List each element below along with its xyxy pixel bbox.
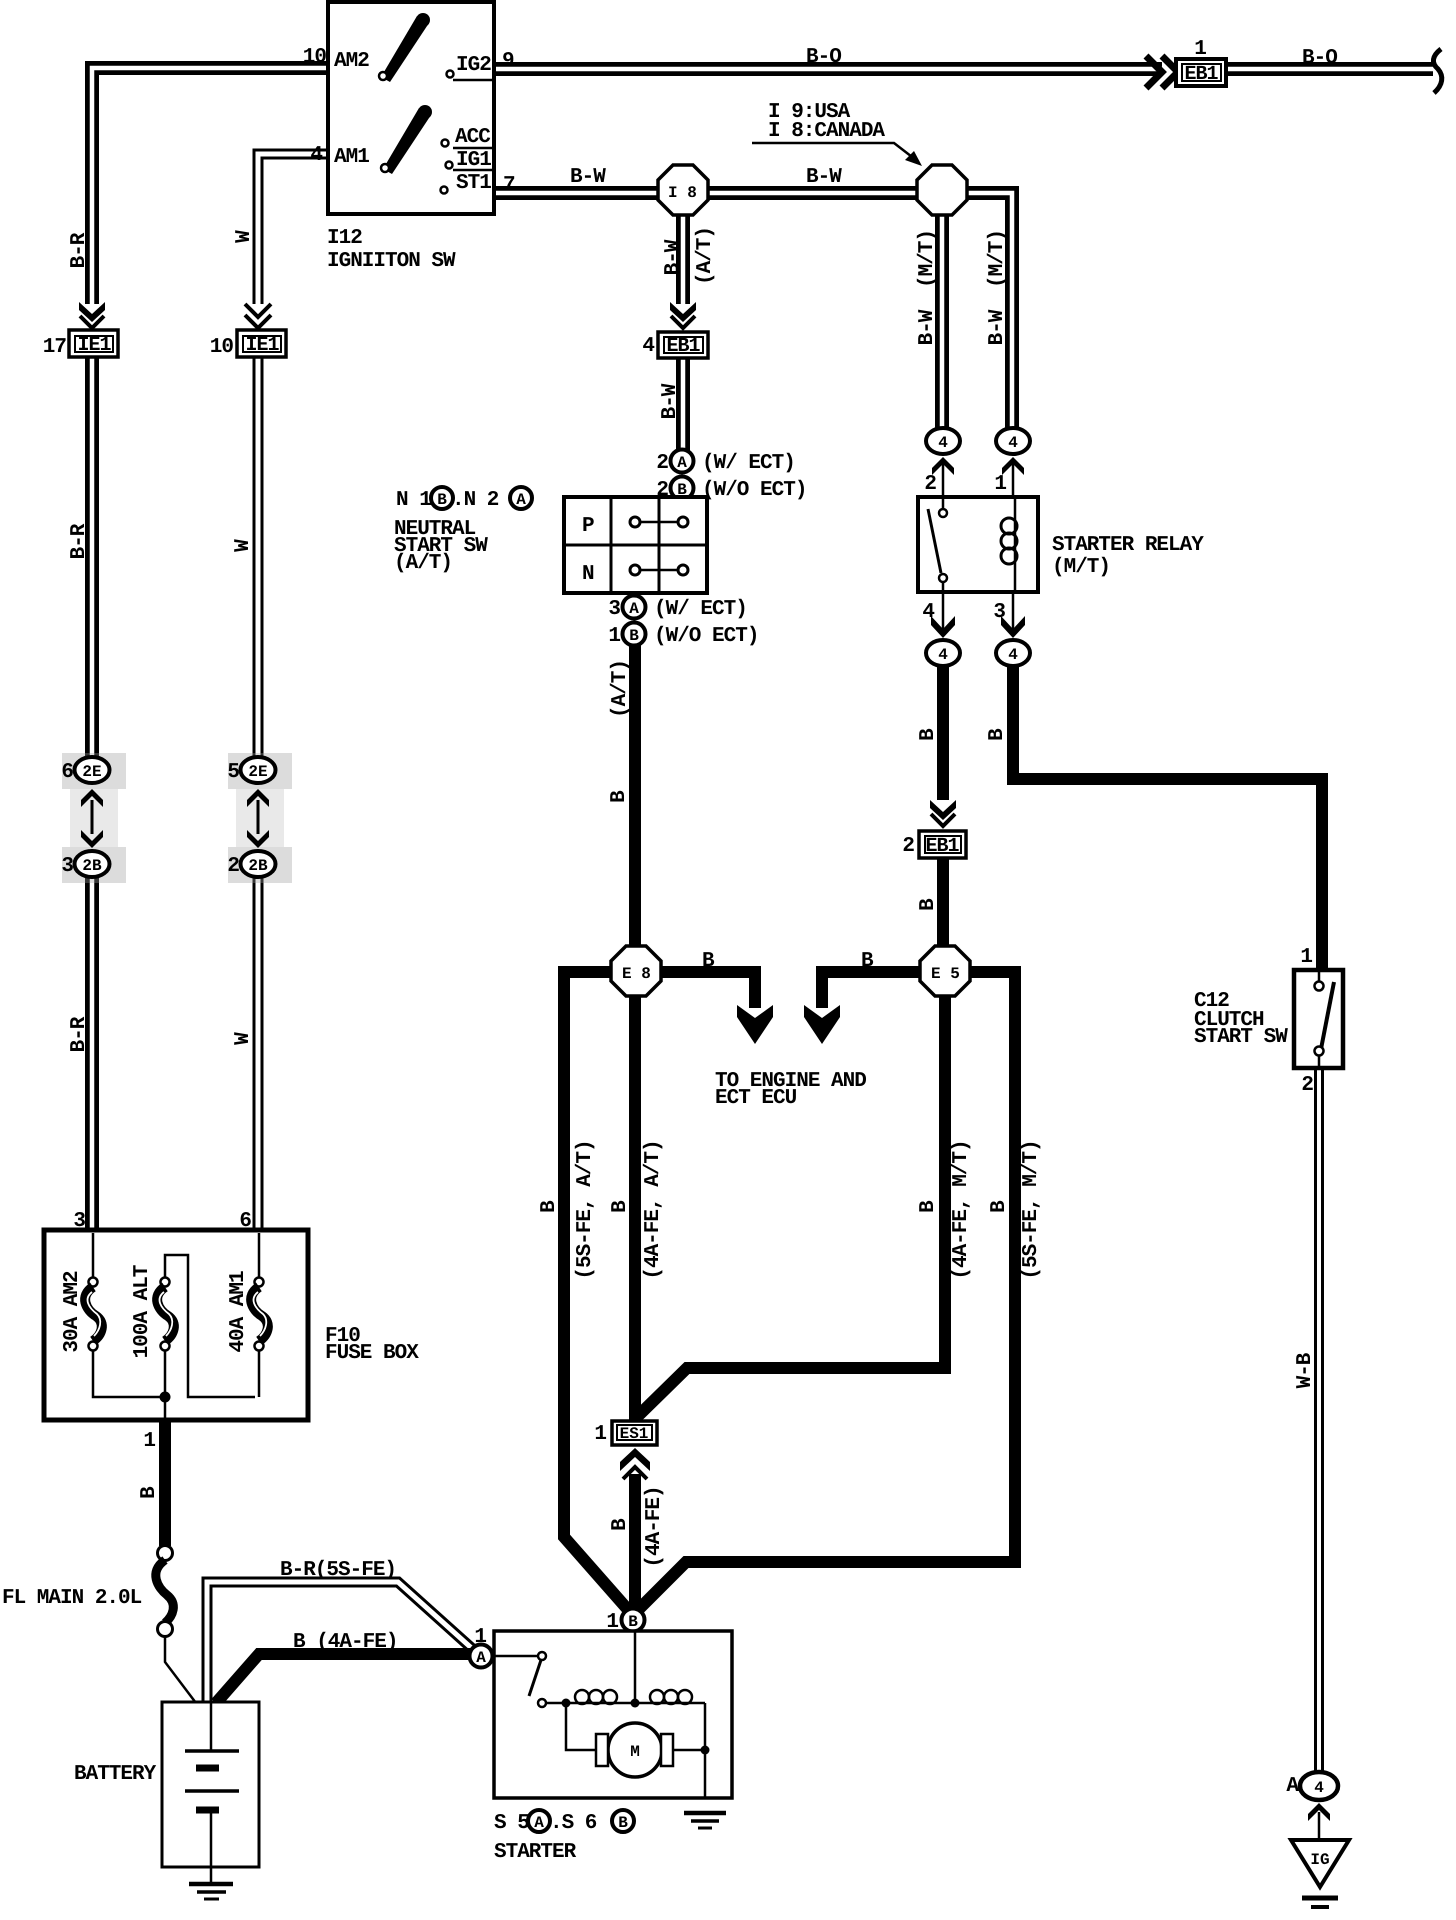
fuse 40A AM1 — [258, 1233, 261, 1397]
svg-text:4: 4 — [1314, 1779, 1324, 1797]
wire B (4A-FE, A/T): E8 down to ES1 — [629, 990, 641, 1421]
connector IE1 pin10 — [237, 330, 286, 357]
neutral start switch box — [564, 497, 707, 593]
connector 2B (W wire) — [241, 851, 276, 877]
leader line with arrow to octagon — [752, 143, 916, 160]
arrow up into 4-oval pin2 — [932, 457, 954, 475]
ignition switch I12 box — [328, 2, 494, 214]
wire B-R segment 2B to fuse box — [85, 876, 99, 1233]
arrow down to 4-oval pin4 — [931, 616, 955, 638]
svg-text:(4A-FE): (4A-FE) — [643, 1486, 666, 1567]
svg-text:(A/T): (A/T) — [694, 227, 717, 285]
starter motor M — [608, 1723, 662, 1777]
svg-text:FUSE BOX: FUSE BOX — [325, 1342, 419, 1365]
svg-text:(5S-FE, A/T): (5S-FE, A/T) — [574, 1140, 597, 1279]
svg-text:4: 4 — [1008, 434, 1018, 452]
svg-text:I12: I12 — [327, 227, 362, 250]
svg-text:N 1: N 1 — [396, 489, 431, 512]
svg-text:.S 6: .S 6 — [550, 1812, 597, 1835]
wire B-R segment IE1 to 2E — [85, 357, 99, 760]
svg-text:.N 2: .N 2 — [452, 489, 499, 512]
svg-text:(M/T): (M/T) — [916, 230, 939, 288]
svg-text:E 8: E 8 — [622, 965, 651, 983]
wire from FL MAIN to battery — [165, 1636, 196, 1703]
wire relay pin3 lead — [1012, 592, 1015, 630]
wire W segment IE1 to 2E — [253, 357, 264, 760]
svg-text:ECT ECU: ECT ECU — [715, 1087, 797, 1110]
svg-text:B-W: B-W — [570, 166, 606, 189]
svg-text:B: B — [986, 728, 1009, 741]
svg-text:B: B — [628, 1613, 638, 1631]
wire B (4A-FE, M/T): E5 down, left, into ES1 — [637, 990, 945, 1417]
svg-text:N: N — [582, 563, 594, 586]
wire B (5S-FE, A/T): E8 left branch down to junction B — [564, 972, 630, 1612]
svg-text:IG2: IG2 — [456, 54, 491, 77]
svg-text:P: P — [582, 515, 594, 538]
svg-text:B: B — [609, 1518, 632, 1531]
wire B-W from ST1 through I8 to junction octagon — [494, 186, 942, 200]
svg-text:7: 7 — [503, 174, 515, 197]
arrow up into 4-oval pin1 — [1002, 457, 1024, 475]
svg-text:1: 1 — [143, 1430, 155, 1453]
wire B-W from I8 down to EB1(4) — [676, 193, 690, 304]
wire B-W from EB1(4) to connector A — [676, 358, 690, 452]
svg-text:B-W: B-W — [986, 309, 1009, 345]
svg-text:(W/O ECT): (W/O ECT) — [654, 625, 758, 648]
svg-text:4: 4 — [938, 434, 948, 452]
svg-text:EB1: EB1 — [925, 835, 959, 858]
wire B thick from neutral start switch to E8 — [629, 642, 641, 950]
svg-text:B: B — [988, 1200, 1011, 1213]
svg-text:4: 4 — [922, 601, 934, 624]
node B below neutral switch — [623, 623, 646, 646]
node A (W/ ECT) — [671, 450, 694, 473]
svg-text:ACC: ACC — [455, 126, 491, 149]
svg-text:B-R: B-R — [68, 232, 91, 268]
4-oval below relay pin4 — [926, 640, 960, 666]
relay switch contacts and lever — [942, 497, 945, 592]
neutral switch N row contacts — [630, 565, 640, 575]
svg-text:1: 1 — [994, 473, 1006, 496]
wire B-O from EB1 to right edge — [1226, 62, 1433, 76]
svg-text:W: W — [232, 539, 255, 552]
svg-text:W: W — [233, 230, 256, 243]
arrow up into bottom 4-oval — [1308, 1803, 1330, 1821]
wire W from AM1 to IE1 (segment 1) — [258, 154, 328, 304]
svg-text:B-W: B-W — [662, 239, 685, 275]
svg-text:A: A — [534, 1814, 544, 1832]
fuse box F10 — [44, 1230, 308, 1420]
relay coil — [1014, 497, 1017, 592]
arrow into EB1(4) — [670, 302, 696, 322]
svg-text:IE1: IE1 — [245, 334, 279, 357]
arrow into IE1(17) — [79, 302, 105, 322]
svg-text:A: A — [677, 454, 687, 472]
svg-text:B-W: B-W — [659, 383, 682, 419]
wire B-R(5S-FE) from battery to starter terminal A — [207, 1582, 477, 1702]
starter relay box — [918, 497, 1038, 592]
svg-text:(W/O ECT): (W/O ECT) — [702, 479, 806, 502]
wire relay pin1 lead — [1012, 462, 1015, 497]
wire B (5S-FE, M/T): E5 right branch down, left, to junction B — [633, 972, 1015, 1615]
starter switch — [493, 1655, 538, 1658]
svg-text:30A AM2: 30A AM2 — [61, 1271, 84, 1353]
svg-text:1: 1 — [1194, 38, 1206, 61]
wire B: E5 left branch to engine arrow — [822, 972, 948, 1008]
fuse 30A AM2 — [93, 1233, 160, 1397]
node B (W/O ECT) — [671, 477, 694, 500]
svg-text:3: 3 — [608, 598, 620, 621]
svg-text:ST1: ST1 — [456, 172, 491, 195]
battery cell plates — [210, 1702, 213, 1751]
engine arrow left — [737, 1005, 773, 1044]
svg-text:1: 1 — [608, 625, 620, 648]
svg-text:B: B — [138, 1486, 161, 1499]
svg-text:1: 1 — [1300, 946, 1312, 969]
arrows between 2E and 2B (W) — [247, 789, 269, 807]
svg-text:B: B — [702, 950, 715, 973]
wire B: E8 right branch to engine arrow — [642, 972, 755, 1008]
wire B (4A-FE) from ES1 down to junction B — [629, 1474, 641, 1612]
svg-text:4: 4 — [642, 335, 654, 358]
svg-text:(5S-FE, M/T): (5S-FE, M/T) — [1020, 1140, 1043, 1279]
clutch start switch C12 box — [1294, 970, 1343, 1068]
svg-text:W: W — [232, 1032, 255, 1045]
neutral switch P row contacts — [630, 517, 640, 527]
wire lead from oval to IG triangle — [1318, 1812, 1321, 1840]
wire continuation hook at right edge — [1433, 49, 1441, 93]
svg-text:B: B — [917, 898, 940, 911]
octagon node (I9 USA / I8 Canada) — [917, 165, 967, 215]
svg-text:17: 17 — [43, 336, 67, 359]
svg-text:AM1: AM1 — [334, 146, 369, 169]
svg-text:100A ALT: 100A ALT — [131, 1265, 154, 1358]
wire fuse box terminal 6 lead — [258, 1233, 261, 1278]
connector 2E (B-R wire) with halo — [62, 753, 126, 789]
svg-text:W-B: W-B — [1294, 1352, 1317, 1388]
svg-text:BATTERY: BATTERY — [74, 1763, 157, 1786]
svg-text:6: 6 — [61, 761, 73, 784]
ignition switch lever AM2 — [381, 16, 429, 82]
svg-text:3: 3 — [61, 855, 73, 878]
wire B thick from EB1(2) to E5 — [937, 858, 949, 950]
arrow into IE1(10) — [245, 304, 271, 317]
svg-text:B: B — [618, 1814, 628, 1832]
svg-text:B: B — [609, 1200, 632, 1213]
svg-text:(4A-FE, M/T): (4A-FE, M/T) — [950, 1140, 973, 1279]
engine arrow right — [804, 1005, 840, 1044]
connector EB1 pin2 — [919, 831, 966, 858]
fuse 100A ALT — [165, 1255, 255, 1397]
ignition switch lever AM1 — [383, 108, 431, 174]
svg-text:2B: 2B — [248, 857, 268, 875]
svg-text:(M/T): (M/T) — [986, 230, 1009, 288]
svg-text:B: B — [608, 790, 631, 803]
arrow up into ES1 — [620, 1448, 650, 1471]
connector IE1 pin17 — [69, 330, 118, 357]
wire W-B from clutch switch to 4-oval — [1314, 1068, 1324, 1772]
svg-text:I 8:CANADA: I 8:CANADA — [768, 120, 885, 143]
wire W segment 2B to fuse box — [253, 876, 264, 1233]
wire B-W (M/T) octagon right branch to 4-oval — [942, 193, 1012, 429]
wire relay pin4 lead — [942, 592, 945, 630]
svg-text:EB1: EB1 — [1184, 63, 1218, 86]
node B junction above starter — [622, 1609, 645, 1632]
svg-text:A: A — [476, 1649, 486, 1667]
svg-text:IGNIITON SW: IGNIITON SW — [327, 250, 456, 273]
svg-text:2: 2 — [656, 452, 668, 475]
ignition contact IG2 — [447, 71, 454, 78]
battery box — [162, 1702, 259, 1867]
IG triangle with ground — [1291, 1840, 1349, 1887]
svg-text:4: 4 — [938, 646, 948, 664]
svg-text:STARTER: STARTER — [494, 1841, 577, 1864]
svg-text:AM2: AM2 — [334, 50, 369, 73]
wire fuse box terminal 3 lead — [92, 1233, 95, 1278]
svg-text:M: M — [630, 1743, 640, 1761]
wire B thick from relay pin3 oval, right and down to clutch start switch — [1013, 662, 1322, 970]
svg-text:2E: 2E — [82, 763, 101, 781]
ground below battery — [189, 1882, 233, 1887]
svg-text:A: A — [629, 600, 639, 618]
ignition contact IG1 — [446, 162, 453, 169]
svg-text:I 8: I 8 — [668, 184, 697, 202]
svg-text:2B: 2B — [82, 857, 102, 875]
4-oval above relay pin2 — [926, 428, 960, 454]
svg-text:5: 5 — [227, 761, 239, 784]
svg-text:EB1: EB1 — [666, 335, 700, 358]
svg-text:3: 3 — [993, 601, 1005, 624]
svg-text:B: B — [917, 1200, 940, 1213]
wire B-W (M/T) octagon down to 4-oval — [935, 193, 949, 429]
wire B-O from IG2 to EB1 — [494, 62, 1162, 76]
connector EB1 pin1 (top right) — [1176, 59, 1226, 86]
arrows between 2E and 2B (B-R) — [81, 789, 103, 807]
ignition contact ST1 — [441, 187, 448, 194]
octagon node E5 — [920, 946, 970, 996]
arrow down to 4-oval pin3 — [1001, 616, 1025, 638]
svg-text:FL MAIN 2.0L: FL MAIN 2.0L — [2, 1587, 142, 1610]
connector ES1 pin1 — [612, 1421, 657, 1445]
svg-text:B: B — [861, 950, 874, 973]
connector 2E (W wire) with halo — [228, 753, 292, 789]
svg-text:E 5: E 5 — [931, 965, 960, 983]
svg-text:B: B — [538, 1200, 561, 1213]
svg-text:IG1: IG1 — [456, 149, 491, 172]
ignition terminal separator lines — [453, 79, 494, 82]
ground below starter — [684, 1811, 726, 1816]
starter box — [494, 1631, 732, 1798]
svg-text:B (4A-FE): B (4A-FE) — [293, 1631, 397, 1654]
svg-text:B: B — [437, 491, 447, 509]
svg-text:2: 2 — [227, 855, 239, 878]
svg-text:B-R: B-R — [68, 523, 91, 559]
svg-text:2: 2 — [1301, 1074, 1313, 1097]
arrow into EB1(2) — [930, 800, 956, 820]
wire B (4A-FE) thick from battery to starter terminal A — [216, 1654, 474, 1703]
svg-text:(M/T): (M/T) — [1052, 556, 1110, 579]
svg-text:1: 1 — [606, 1611, 618, 1634]
chevrons before EB1 top — [1146, 56, 1162, 88]
svg-text:3: 3 — [73, 1210, 85, 1233]
svg-text:(W/ ECT): (W/ ECT) — [654, 598, 747, 621]
fusible link FL MAIN 2.0L — [158, 1546, 173, 1561]
4-oval below relay pin3 — [996, 640, 1030, 666]
svg-text:1: 1 — [594, 1423, 606, 1446]
wire B thick from fuse box terminal 1 to FL MAIN — [159, 1420, 171, 1546]
wire B thick from relay pin4 oval to EB1(2) — [937, 662, 949, 800]
wire relay pin2 lead — [942, 462, 945, 497]
starter internal wires — [566, 1632, 705, 1797]
starter solenoid coils — [546, 1702, 705, 1705]
octagon node E8 — [611, 946, 661, 996]
svg-text:A: A — [1286, 1775, 1299, 1798]
svg-text:9: 9 — [502, 50, 514, 73]
svg-text:ES1: ES1 — [620, 1425, 649, 1443]
svg-text:B: B — [917, 728, 940, 741]
svg-text:STARTER RELAY: STARTER RELAY — [1052, 534, 1204, 557]
svg-text:6: 6 — [239, 1210, 251, 1233]
svg-text:B-W: B-W — [916, 309, 939, 345]
svg-text:B-O: B-O — [1302, 47, 1337, 70]
svg-text:4: 4 — [310, 144, 322, 167]
svg-text:(W/ ECT): (W/ ECT) — [702, 452, 795, 475]
octagon node I8 — [658, 165, 708, 215]
node A below neutral switch — [623, 596, 646, 619]
connector 2B (B-R wire) — [75, 851, 110, 877]
svg-text:B-W: B-W — [806, 166, 842, 189]
svg-text:START SW: START SW — [1194, 1026, 1288, 1049]
ignition contact ACC — [442, 140, 449, 147]
svg-text:B: B — [629, 627, 639, 645]
starter terminal A — [470, 1645, 493, 1668]
svg-text:2: 2 — [924, 473, 936, 496]
svg-text:4: 4 — [1008, 646, 1018, 664]
svg-text:IE1: IE1 — [77, 334, 111, 357]
4-oval above relay pin1 — [996, 428, 1030, 454]
fuse box internal junction and terminal 1 — [160, 1392, 171, 1403]
4-oval at bottom right — [1300, 1772, 1338, 1800]
svg-text:2: 2 — [656, 479, 668, 502]
svg-text:B-R: B-R — [68, 1016, 91, 1052]
svg-text:IG: IG — [1310, 1851, 1329, 1869]
connector EB1 pin4 — [658, 332, 708, 358]
svg-text:B-R(5S-FE): B-R(5S-FE) — [280, 1559, 396, 1582]
svg-text:1: 1 — [474, 1626, 486, 1649]
svg-text:10: 10 — [210, 336, 234, 359]
wire B-R from AM2 to IE1 (segment 1) — [92, 68, 328, 304]
svg-text:(A/T): (A/T) — [394, 552, 452, 575]
svg-text:40A AM1: 40A AM1 — [227, 1271, 250, 1353]
svg-text:2E: 2E — [248, 763, 267, 781]
svg-text:B-O: B-O — [806, 46, 841, 69]
svg-text:(A/T): (A/T) — [609, 660, 632, 718]
svg-text:10: 10 — [303, 46, 327, 69]
svg-text:(4A-FE, A/T): (4A-FE, A/T) — [642, 1140, 665, 1279]
svg-text:2: 2 — [902, 835, 914, 858]
svg-text:A: A — [516, 491, 526, 509]
svg-text:S 5: S 5 — [494, 1812, 529, 1835]
